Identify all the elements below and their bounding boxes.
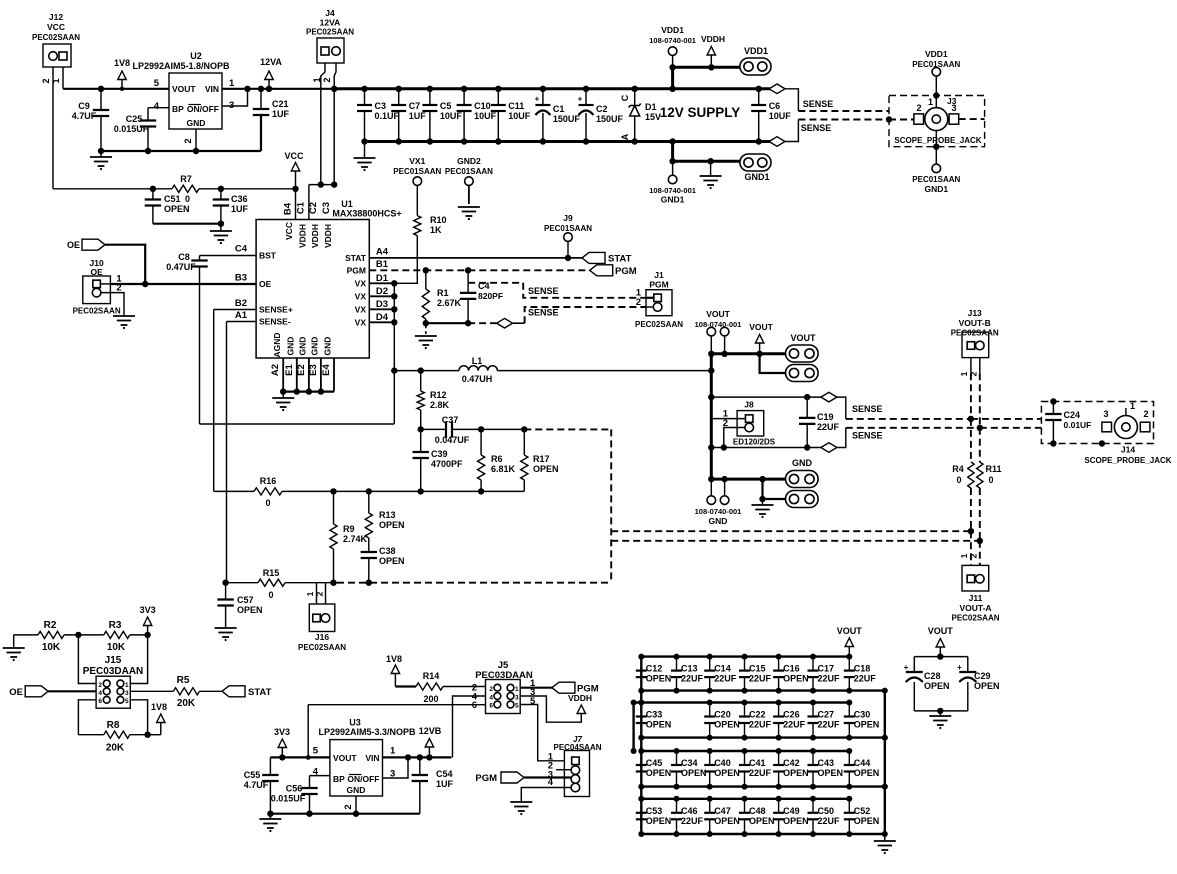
svg-text:3: 3	[515, 695, 519, 702]
svg-text:AGND: AGND	[272, 332, 282, 357]
svg-text:2: 2	[183, 138, 194, 143]
svg-text:R16: R16	[260, 476, 277, 486]
svg-text:OE: OE	[67, 240, 80, 250]
svg-text:BST: BST	[259, 251, 277, 261]
svg-text:C1: C1	[553, 104, 565, 114]
svg-text:C50: C50	[818, 806, 835, 816]
svg-text:C4: C4	[235, 244, 248, 255]
svg-text:SENSE-: SENSE-	[259, 317, 291, 327]
svg-text:C22: C22	[749, 710, 766, 720]
svg-text:E4: E4	[321, 363, 332, 375]
svg-text:C1: C1	[296, 201, 307, 214]
svg-text:U1: U1	[341, 199, 353, 209]
svg-text:E2: E2	[296, 364, 307, 376]
svg-text:VOUT: VOUT	[749, 322, 773, 332]
svg-text:SENSE: SENSE	[528, 308, 559, 318]
svg-text:STAT: STAT	[248, 687, 272, 698]
svg-text:+: +	[957, 663, 962, 672]
svg-text:VDD1: VDD1	[661, 25, 684, 35]
svg-text:SENSE: SENSE	[852, 404, 883, 414]
svg-text:C54: C54	[436, 769, 453, 779]
svg-text:C42: C42	[783, 758, 800, 768]
svg-text:A: A	[620, 133, 630, 140]
svg-text:OPEN: OPEN	[974, 681, 1000, 691]
svg-text:OPEN: OPEN	[646, 768, 672, 778]
svg-text:R3: R3	[109, 620, 122, 631]
svg-text:5: 5	[530, 696, 536, 707]
svg-text:ED120/2DS: ED120/2DS	[733, 438, 776, 447]
svg-text:C52: C52	[854, 806, 871, 816]
svg-text:C15: C15	[749, 664, 766, 674]
svg-text:VDD1: VDD1	[925, 49, 948, 59]
svg-text:VOUT-A: VOUT-A	[959, 603, 991, 613]
svg-text:C17: C17	[818, 664, 835, 674]
svg-text:PEC01SAAN: PEC01SAAN	[445, 167, 493, 176]
svg-text:OPEN: OPEN	[533, 464, 559, 474]
svg-text:0.015UF: 0.015UF	[114, 124, 149, 134]
svg-text:10K: 10K	[107, 642, 126, 653]
svg-text:R17: R17	[533, 454, 550, 464]
svg-text:2: 2	[98, 682, 102, 689]
svg-text:22UF: 22UF	[714, 674, 737, 684]
svg-text:C21: C21	[272, 99, 289, 109]
svg-text:2: 2	[916, 103, 921, 113]
svg-text:E3: E3	[308, 364, 319, 376]
svg-text:GND: GND	[286, 337, 296, 356]
svg-text:200: 200	[423, 694, 438, 704]
svg-text:VOUT-B: VOUT-B	[959, 318, 991, 328]
svg-text:LP2992AIM5-3.3/NOPB: LP2992AIM5-3.3/NOPB	[318, 727, 416, 737]
svg-text:R10: R10	[430, 215, 447, 225]
svg-text:20K: 20K	[106, 743, 125, 754]
svg-text:U3: U3	[349, 718, 361, 728]
svg-text:VCC: VCC	[284, 222, 294, 240]
svg-text:150UF: 150UF	[553, 114, 581, 124]
svg-text:C12: C12	[646, 664, 663, 674]
svg-text:OPEN: OPEN	[714, 768, 740, 778]
svg-text:J1: J1	[654, 270, 664, 280]
svg-text:1: 1	[125, 682, 129, 689]
svg-text:VX: VX	[355, 278, 367, 288]
svg-text:R8: R8	[107, 720, 120, 731]
svg-text:C28: C28	[924, 671, 941, 681]
svg-text:6.81K: 6.81K	[491, 464, 516, 474]
svg-text:1: 1	[229, 78, 235, 89]
svg-text:R11: R11	[985, 464, 1001, 474]
svg-text:+: +	[904, 663, 909, 672]
svg-text:C45: C45	[646, 758, 663, 768]
svg-text:R2: R2	[44, 620, 57, 631]
svg-text:1V8: 1V8	[114, 58, 130, 68]
svg-text:R13: R13	[379, 510, 396, 520]
svg-text:12VA: 12VA	[260, 57, 282, 67]
svg-text:R1: R1	[437, 288, 449, 298]
svg-text:C16: C16	[783, 664, 800, 674]
svg-text:OPEN: OPEN	[379, 556, 405, 566]
svg-text:4.7UF: 4.7UF	[244, 780, 269, 790]
svg-text:1: 1	[515, 686, 519, 693]
svg-text:22UF: 22UF	[681, 816, 704, 826]
svg-text:5: 5	[154, 78, 160, 89]
svg-text:ON/OFF: ON/OFF	[187, 104, 219, 114]
svg-text:2: 2	[343, 804, 354, 809]
svg-text:R4: R4	[952, 464, 964, 474]
svg-text:1V8: 1V8	[386, 654, 402, 664]
svg-text:PEC02SAAN: PEC02SAAN	[298, 643, 346, 652]
svg-text:GND2: GND2	[457, 156, 481, 166]
svg-text:C47: C47	[714, 806, 731, 816]
svg-text:J16: J16	[315, 632, 329, 642]
svg-text:C29: C29	[974, 671, 991, 681]
svg-text:OPEN: OPEN	[646, 674, 672, 684]
svg-text:C2: C2	[596, 104, 608, 114]
svg-text:OPEN: OPEN	[818, 768, 844, 778]
svg-text:6: 6	[472, 700, 477, 711]
svg-text:SENSE: SENSE	[803, 99, 834, 109]
svg-text:OPEN: OPEN	[783, 768, 809, 778]
svg-text:1: 1	[305, 591, 315, 596]
svg-text:0.047UF: 0.047UF	[435, 435, 470, 445]
svg-text:12VB: 12VB	[419, 726, 442, 736]
svg-text:VX1: VX1	[409, 156, 425, 166]
svg-text:2: 2	[41, 78, 51, 83]
svg-text:D2: D2	[376, 286, 388, 297]
svg-text:OPEN: OPEN	[854, 720, 880, 730]
svg-text:22UF: 22UF	[817, 422, 840, 432]
svg-text:C30: C30	[854, 710, 871, 720]
svg-text:GND1: GND1	[661, 195, 685, 205]
svg-text:22UF: 22UF	[681, 674, 704, 684]
svg-text:C33: C33	[646, 710, 663, 720]
svg-text:OPEN: OPEN	[714, 720, 740, 730]
svg-text:PEC04SAAN: PEC04SAAN	[553, 743, 601, 752]
svg-text:GND: GND	[298, 337, 308, 356]
svg-text:3V3: 3V3	[274, 727, 290, 737]
svg-text:OPEN: OPEN	[783, 816, 809, 826]
svg-text:20K: 20K	[177, 698, 196, 709]
svg-text:5: 5	[125, 698, 129, 705]
svg-text:VOUT: VOUT	[928, 626, 954, 636]
svg-text:R5: R5	[177, 675, 190, 686]
svg-text:SENSE: SENSE	[528, 286, 559, 296]
svg-text:SCOPE_PROBE_JACK: SCOPE_PROBE_JACK	[894, 136, 981, 145]
svg-text:J9: J9	[563, 213, 573, 223]
svg-text:22UF: 22UF	[749, 674, 772, 684]
svg-text:2: 2	[1143, 409, 1148, 419]
svg-text:SENSE+: SENSE+	[259, 305, 293, 315]
svg-text:PEC01SAAN: PEC01SAAN	[912, 175, 960, 184]
svg-text:0.47UF: 0.47UF	[166, 262, 196, 272]
svg-text:C37: C37	[442, 415, 459, 425]
svg-text:PGM: PGM	[475, 773, 497, 784]
svg-text:C25: C25	[126, 114, 143, 124]
svg-text:2: 2	[969, 553, 979, 558]
svg-text:OPEN: OPEN	[164, 204, 190, 214]
svg-text:C46: C46	[681, 806, 698, 816]
svg-text:VX: VX	[355, 304, 367, 314]
svg-text:3: 3	[125, 690, 129, 697]
svg-text:R12: R12	[430, 390, 447, 400]
svg-text:OE: OE	[9, 687, 23, 698]
svg-text:PEC03DAAN: PEC03DAAN	[475, 670, 533, 681]
svg-text:C10: C10	[474, 101, 491, 111]
svg-text:C3: C3	[375, 101, 387, 111]
svg-text:0: 0	[956, 475, 961, 485]
svg-text:150UF: 150UF	[596, 114, 624, 124]
svg-text:VOUT: VOUT	[333, 753, 357, 763]
svg-text:C51: C51	[164, 194, 181, 204]
svg-text:1: 1	[959, 553, 969, 558]
svg-text:C39: C39	[431, 449, 448, 459]
svg-text:3: 3	[1103, 409, 1108, 419]
svg-text:VDDH: VDDH	[568, 693, 592, 703]
svg-text:D4: D4	[376, 312, 389, 323]
svg-text:R6: R6	[491, 454, 503, 464]
svg-text:J15: J15	[105, 655, 122, 666]
svg-text:C49: C49	[783, 806, 800, 816]
svg-text:VCC: VCC	[284, 151, 304, 161]
svg-text:VDDH: VDDH	[310, 224, 320, 248]
svg-text:VDDH: VDDH	[298, 224, 308, 248]
svg-text:OPEN: OPEN	[854, 768, 880, 778]
svg-text:1UF: 1UF	[436, 779, 454, 789]
svg-text:PEC02SAAN: PEC02SAAN	[73, 307, 121, 316]
svg-text:J4: J4	[325, 8, 335, 18]
svg-text:GND: GND	[323, 337, 333, 356]
svg-text:2: 2	[116, 283, 121, 294]
svg-text:GND: GND	[792, 458, 813, 468]
svg-text:VX: VX	[355, 317, 367, 327]
svg-text:4: 4	[98, 690, 102, 697]
svg-text:0: 0	[265, 498, 270, 508]
svg-text:C26: C26	[783, 710, 800, 720]
svg-text:GND: GND	[709, 516, 728, 526]
svg-text:STAT: STAT	[345, 253, 367, 263]
svg-text:C7: C7	[409, 101, 421, 111]
svg-text:R7: R7	[180, 174, 192, 184]
svg-text:U2: U2	[190, 51, 202, 61]
svg-text:0: 0	[988, 475, 993, 485]
svg-text:6: 6	[489, 703, 493, 710]
svg-text:GND: GND	[187, 118, 206, 128]
svg-text:B1: B1	[376, 259, 389, 270]
svg-text:PGM: PGM	[649, 280, 668, 290]
svg-text:J12: J12	[49, 12, 63, 22]
svg-text:1UF: 1UF	[409, 111, 427, 121]
svg-text:2: 2	[723, 418, 728, 429]
svg-text:2: 2	[636, 297, 641, 308]
svg-text:PEC02SAAN: PEC02SAAN	[306, 28, 354, 37]
svg-text:BP: BP	[333, 774, 345, 784]
svg-text:0.1UF: 0.1UF	[375, 111, 400, 121]
svg-text:C3: C3	[321, 202, 332, 214]
svg-text:R9: R9	[343, 524, 355, 534]
svg-text:2.74K: 2.74K	[343, 534, 368, 544]
svg-text:OPEN: OPEN	[749, 816, 775, 826]
svg-text:PEC02SAAN: PEC02SAAN	[951, 614, 999, 623]
svg-text:A2: A2	[270, 364, 281, 376]
svg-text:C44: C44	[854, 758, 871, 768]
svg-text:OPEN: OPEN	[237, 605, 263, 615]
svg-text:E1: E1	[284, 363, 295, 375]
svg-text:C55: C55	[244, 770, 261, 780]
svg-text:0.01UF: 0.01UF	[1064, 420, 1092, 430]
svg-text:1: 1	[390, 746, 396, 757]
svg-text:5: 5	[515, 703, 519, 710]
svg-text:MAX38800HCS+: MAX38800HCS+	[332, 209, 401, 219]
svg-text:B4: B4	[283, 202, 294, 215]
svg-text:J8: J8	[744, 400, 754, 410]
svg-text:PGM: PGM	[347, 266, 366, 276]
svg-text:12VA: 12VA	[320, 18, 341, 28]
svg-text:PEC03DAAN: PEC03DAAN	[83, 666, 144, 677]
svg-text:4.7UF: 4.7UF	[72, 111, 97, 121]
svg-text:10UF: 10UF	[474, 111, 497, 121]
svg-text:6: 6	[98, 698, 102, 705]
svg-text:PGM: PGM	[615, 266, 637, 277]
svg-text:OPEN: OPEN	[924, 681, 950, 691]
svg-text:1: 1	[959, 371, 969, 376]
svg-text:0: 0	[268, 590, 273, 600]
svg-text:+: +	[578, 95, 583, 104]
svg-text:VX: VX	[355, 291, 367, 301]
svg-text:VIN: VIN	[205, 84, 219, 94]
svg-text:C48: C48	[749, 806, 766, 816]
svg-text:J13: J13	[968, 308, 982, 318]
svg-text:D3: D3	[376, 299, 388, 310]
svg-text:3: 3	[951, 103, 956, 113]
svg-text:OPEN: OPEN	[646, 720, 672, 730]
svg-text:108-0740-001: 108-0740-001	[695, 320, 742, 329]
svg-text:C34: C34	[681, 758, 698, 768]
svg-text:D1: D1	[376, 273, 389, 284]
svg-text:OPEN: OPEN	[783, 674, 809, 684]
svg-text:B2: B2	[235, 298, 247, 309]
svg-text:0: 0	[185, 194, 190, 204]
svg-text:C40: C40	[714, 758, 731, 768]
svg-text:LP2992AIM5-1.8/NOPB: LP2992AIM5-1.8/NOPB	[132, 61, 230, 71]
svg-text:C13: C13	[681, 664, 698, 674]
svg-text:4: 4	[548, 777, 554, 788]
svg-text:OPEN: OPEN	[379, 520, 405, 530]
svg-text:C14: C14	[714, 664, 731, 674]
svg-text:OPEN: OPEN	[854, 816, 880, 826]
svg-text:2.67K: 2.67K	[437, 298, 462, 308]
svg-text:C38: C38	[379, 546, 396, 556]
svg-text:SCOPE_PROBE_JACK: SCOPE_PROBE_JACK	[1084, 456, 1171, 465]
svg-text:GND: GND	[310, 337, 320, 356]
svg-text:4: 4	[313, 767, 319, 778]
svg-text:2.8K: 2.8K	[430, 400, 450, 410]
svg-text:15V: 15V	[645, 112, 661, 122]
svg-text:L1: L1	[472, 356, 483, 366]
svg-text:PEC02SAAN: PEC02SAAN	[635, 320, 683, 329]
svg-text:1UF: 1UF	[231, 204, 249, 214]
svg-text:VOUT: VOUT	[790, 333, 816, 343]
svg-text:C41: C41	[749, 758, 766, 768]
svg-text:C9: C9	[78, 101, 90, 111]
svg-text:SENSE: SENSE	[852, 431, 883, 441]
svg-text:C18: C18	[854, 664, 871, 674]
svg-text:C19: C19	[817, 412, 834, 422]
svg-text:J11: J11	[969, 593, 983, 603]
svg-text:PEC01SAAN: PEC01SAAN	[544, 224, 592, 233]
svg-text:108-0740-001: 108-0740-001	[649, 36, 696, 45]
svg-text:+: +	[535, 95, 540, 104]
svg-text:B3: B3	[235, 273, 247, 284]
svg-text:PEC01SAAN: PEC01SAAN	[912, 60, 960, 69]
svg-text:C43: C43	[818, 758, 835, 768]
svg-text:10UF: 10UF	[440, 111, 463, 121]
svg-text:2: 2	[322, 77, 332, 82]
svg-text:VOUT: VOUT	[172, 84, 196, 94]
svg-text:SENSE: SENSE	[801, 123, 832, 133]
svg-text:OE: OE	[259, 279, 272, 289]
svg-text:3V3: 3V3	[140, 605, 156, 615]
svg-text:VDDH: VDDH	[323, 224, 333, 248]
svg-text:12V SUPPLY: 12V SUPPLY	[660, 105, 741, 120]
svg-text:5: 5	[313, 746, 319, 757]
svg-text:22UF: 22UF	[854, 674, 877, 684]
svg-text:0.47UH: 0.47UH	[462, 374, 493, 384]
svg-text:22UF: 22UF	[818, 816, 841, 826]
svg-text:22UF: 22UF	[749, 720, 772, 730]
svg-text:0.015UF: 0.015UF	[271, 794, 306, 804]
svg-text:1: 1	[1130, 401, 1135, 411]
svg-text:C5: C5	[440, 101, 452, 111]
svg-text:PEC02SAAN: PEC02SAAN	[32, 33, 80, 42]
svg-text:22UF: 22UF	[783, 720, 806, 730]
svg-text:C8: C8	[178, 252, 190, 262]
svg-text:PEC01SAAN: PEC01SAAN	[393, 167, 441, 176]
svg-text:1UF: 1UF	[272, 109, 290, 119]
svg-text:10UF: 10UF	[508, 111, 531, 121]
svg-text:4: 4	[489, 695, 493, 702]
svg-text:4700PF: 4700PF	[431, 459, 463, 469]
svg-text:C: C	[620, 94, 630, 101]
svg-text:OPEN: OPEN	[714, 816, 740, 826]
svg-text:STAT: STAT	[608, 254, 632, 265]
svg-text:D1: D1	[645, 102, 657, 112]
svg-text:BP: BP	[172, 104, 184, 114]
svg-text:2: 2	[489, 686, 493, 693]
svg-text:C56: C56	[286, 784, 303, 794]
svg-text:4: 4	[154, 101, 160, 112]
svg-text:10K: 10K	[42, 642, 61, 653]
svg-text:C6: C6	[769, 101, 781, 111]
svg-text:VCC: VCC	[47, 22, 65, 32]
svg-text:108-0740-001: 108-0740-001	[695, 507, 742, 516]
svg-text:A1: A1	[235, 310, 248, 321]
svg-text:1K: 1K	[430, 225, 442, 235]
svg-text:OPEN: OPEN	[646, 816, 672, 826]
svg-text:22UF: 22UF	[818, 674, 841, 684]
svg-text:R15: R15	[263, 568, 280, 578]
svg-text:1: 1	[928, 97, 933, 107]
svg-text:C36: C36	[231, 194, 248, 204]
svg-text:VOUT: VOUT	[706, 309, 730, 319]
svg-text:J14: J14	[1121, 445, 1135, 455]
svg-text:C24: C24	[1064, 410, 1081, 420]
svg-text:C57: C57	[237, 595, 254, 605]
svg-text:OPEN: OPEN	[681, 768, 707, 778]
svg-text:VIN: VIN	[365, 753, 379, 763]
svg-text:ON/OFF: ON/OFF	[347, 774, 379, 784]
svg-text:2: 2	[315, 591, 325, 596]
svg-text:1V8: 1V8	[151, 702, 167, 712]
svg-text:22UF: 22UF	[749, 768, 772, 778]
svg-text:22UF: 22UF	[818, 720, 841, 730]
